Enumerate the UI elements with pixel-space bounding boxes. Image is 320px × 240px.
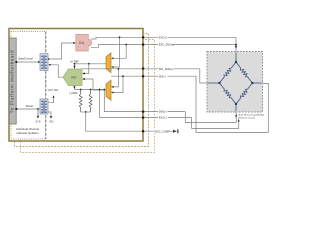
EXC_COMP end symbol (173, 130, 177, 133)
top rows to bridge top node (235, 37, 237, 51)
row3 SIG+ (82, 68, 200, 70)
bridge arm top-left resistor (220, 62, 237, 83)
wire data/control (16, 61, 40, 63)
svg-text:(-) REF: (-) REF (69, 91, 78, 95)
row1 label EXC(+) (158, 35, 168, 40)
bridge arm bottom-left resistor (220, 83, 237, 104)
row6 route to bridge bottom node (192, 118, 239, 129)
bridge arm bottom-right resistor (236, 83, 252, 104)
A/D converter (63, 69, 82, 86)
row4 label SIG(-) (158, 74, 168, 79)
row2 feed to mux1 in1 (113, 45, 126, 59)
A/D input pin2 from mux2 (83, 79, 107, 90)
row1 feed to mux1 in2 (113, 37, 120, 67)
svg-text:ISO: ISO (49, 120, 53, 123)
row7 EXC_COMP from resistor join (86, 112, 173, 131)
ghost channel card 1 (15, 34, 149, 147)
bridge node dots (235, 61, 237, 63)
row3 route to bridge left node (200, 69, 207, 83)
ISO ground (48, 112, 51, 116)
channel card board outline (9, 29, 143, 142)
row4 route around to bridge right node (196, 76, 268, 132)
resistor bottom join (81, 111, 91, 113)
mux1 input arrows (111, 57, 113, 59)
svg-text:Power: Power (26, 104, 34, 108)
board edge connector pads (142, 36, 144, 132)
motherboard connector bar (9, 38, 16, 124)
row2 label EXC_SNS(+) (158, 42, 173, 47)
svg-text:(+) REF: (+) REF (70, 59, 80, 63)
row6 label EXC(-) (158, 115, 168, 120)
mux M2 (106, 80, 111, 100)
reference resistor R2 (89, 90, 92, 113)
svg-text:A/D: A/D (71, 76, 77, 80)
svg-text:EXC(-): EXC(-) (159, 116, 167, 120)
svg-text:SYS: SYS (35, 120, 40, 123)
svg-text:VCC ISO: VCC ISO (48, 88, 59, 92)
mux2 input arrows (111, 86, 113, 88)
(-) REF rail (74, 86, 76, 90)
row5 label SNS(-) (158, 109, 168, 114)
D/A converter (76, 34, 92, 51)
svg-text:SIG_SNS(+): SIG_SNS(+) (159, 67, 174, 71)
wire D/A out2 to row2 (91, 45, 236, 48)
digital isolator U1 (40, 54, 48, 71)
isolation barrier dashed line (45, 32, 47, 140)
ghost channel card 2 (21, 40, 155, 153)
svg-text:(External sensor): (External sensor) (239, 117, 256, 120)
wire A/D to isolator (50, 65, 63, 77)
svg-text:To Platform Motherboard: To Platform Motherboard (9, 50, 14, 113)
galvanic isolation dotted boundary (11, 32, 46, 140)
svg-text:EXC_SNS(+): EXC_SNS(+) (159, 43, 174, 47)
wire isolator to D/A (48, 43, 75, 59)
svg-text:Data/Control: Data/Control (18, 56, 33, 60)
svg-text:EXC(+): EXC(+) (159, 35, 168, 39)
reference resistor R1 (79, 90, 82, 113)
bridge internal stubs (235, 52, 237, 63)
svg-text:SNS(-): SNS(-) (159, 110, 167, 114)
svg-text:SIG(-): SIG(-) (159, 74, 166, 78)
svg-text:EXC_COMP: EXC_COMP (155, 129, 170, 133)
VCC ISO power flag (48, 97, 54, 103)
row3 label SIG_SNS(+) (158, 67, 174, 72)
power transformer T1 (40, 99, 48, 114)
svg-text:Auto Wheat Gauge/Bridge: Auto Wheat Gauge/Bridge (239, 113, 265, 116)
svg-text:D/A: D/A (79, 41, 85, 45)
row7 label EXC_COMP (155, 129, 170, 134)
wire power (16, 108, 40, 110)
row6 EXC- from ref rail (100, 90, 192, 118)
A/D input pin1 from rail (83, 64, 89, 74)
bridge boundary dots (235, 50, 237, 52)
row5 SNS- from ref rail (104, 90, 185, 112)
SYS ground (37, 109, 39, 116)
bridge sensor box (207, 52, 263, 113)
svg-text:Galvanic Isolation: Galvanic Isolation (16, 131, 39, 135)
row4 SIG- (111, 75, 196, 77)
mux M1 (106, 53, 111, 73)
bridge arm top-right resistor (236, 62, 252, 83)
row5 route to bridge bottom node (185, 112, 236, 123)
wire D/A out1 to row1 (91, 37, 236, 39)
